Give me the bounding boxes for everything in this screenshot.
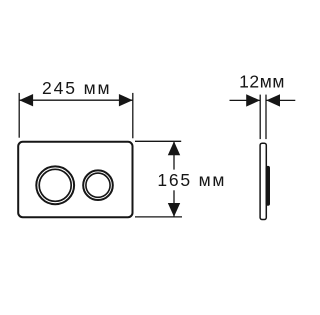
height dimension line upper segment: [173, 142, 175, 170]
thickness dimension line right segment: [266, 99, 295, 101]
width dimension line: [20, 99, 133, 101]
thickness dimension left arrowhead pointing right: [246, 94, 260, 106]
small flush button inner ring: [86, 173, 110, 197]
thickness dimension: left extension line: [259, 95, 261, 140]
large flush button outer ring: [36, 166, 74, 204]
large flush button inner ring: [39, 169, 71, 201]
height dimension: top extension line: [135, 140, 181, 142]
side profile button bump: [266, 166, 270, 206]
flush plate front view outline: [18, 142, 132, 217]
flush plate side profile outline: [260, 143, 266, 219]
thickness dimension: right extension line: [265, 95, 267, 140]
width dimension: left extension line: [18, 93, 20, 138]
height dimension top arrowhead: [168, 141, 180, 155]
height dimension line lower segment: [173, 190, 175, 216]
width dimension left arrowhead: [19, 94, 33, 106]
height dimension: bottom extension line: [135, 216, 182, 218]
width dimension: right extension line: [132, 93, 134, 138]
svg-text:12мм: 12мм: [239, 71, 284, 91]
width dimension right arrowhead: [119, 94, 133, 106]
height dimension bottom arrowhead: [168, 203, 180, 217]
thickness dimension line left segment: [230, 99, 261, 101]
thickness dimension right arrowhead pointing left: [266, 94, 280, 106]
small flush button outer ring: [83, 170, 113, 200]
